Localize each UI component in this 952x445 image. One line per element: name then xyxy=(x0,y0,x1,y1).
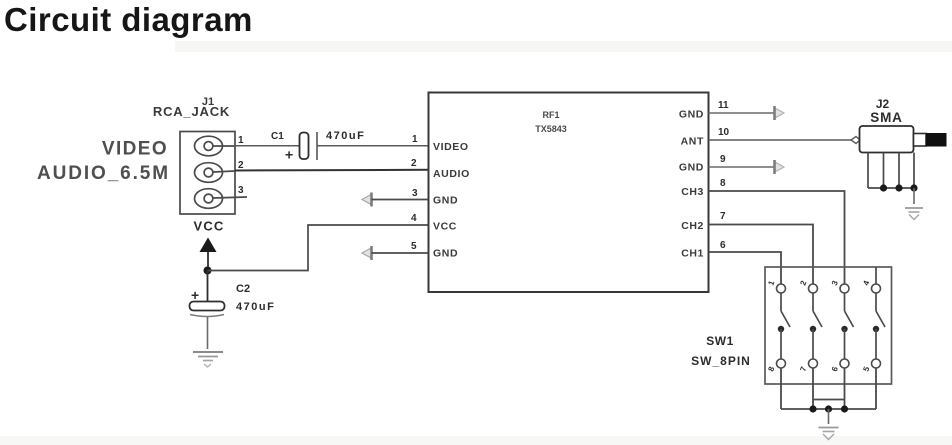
svg-text:1: 1 xyxy=(238,135,244,146)
wire SW1 ground rail xyxy=(781,408,876,410)
wire SW1 pin8 to ground rail xyxy=(780,368,782,409)
switch SW1 designator xyxy=(706,334,734,348)
svg-text:470uF: 470uF xyxy=(326,130,365,142)
connector J1 pin 1 number xyxy=(238,135,244,146)
connector J2 value SMA xyxy=(870,110,902,125)
capacitor C2 negative plate xyxy=(190,315,224,317)
svg-text:8: 8 xyxy=(766,365,776,373)
VCC label at J1 xyxy=(193,219,224,234)
wire AUDIO from J1 pin2 to U1 pin2 xyxy=(235,169,429,172)
IC U1 pin label CH1 xyxy=(681,248,704,260)
svg-text:+: + xyxy=(285,147,293,163)
IC U1 designator RF1 xyxy=(542,110,559,120)
connector J2 body xyxy=(860,126,914,153)
wire CH2 from U1 pin7 to SW1 xyxy=(709,225,814,285)
svg-text:RF1: RF1 xyxy=(542,110,559,120)
IC U1 pin label VIDEO xyxy=(433,141,469,153)
svg-text:4: 4 xyxy=(411,213,417,224)
wire C2 to ground xyxy=(207,317,209,349)
junction SW1 rail dot 1 xyxy=(809,405,816,412)
junction J2 rail dot 2 xyxy=(895,184,902,191)
svg-text:VIDEO: VIDEO xyxy=(433,141,469,153)
ground flag at U1 pin 9 xyxy=(775,160,785,174)
wire J2 ground rail xyxy=(868,187,914,189)
svg-text:1: 1 xyxy=(412,134,418,145)
connector J2 leg 3 xyxy=(898,153,900,189)
svg-text:GND: GND xyxy=(679,109,704,121)
U1 pin 6 number xyxy=(720,240,726,251)
U1 pin 5 number xyxy=(411,241,417,252)
connector J2 leg 4 xyxy=(913,153,915,189)
svg-text:1: 1 xyxy=(766,279,776,287)
capacitor C2 value 470uF xyxy=(236,301,275,313)
capacitor C1 plus sign xyxy=(285,147,293,163)
connector J2 input point xyxy=(851,137,860,144)
connector J2 leg 1 xyxy=(867,153,869,189)
svg-text:2: 2 xyxy=(411,158,417,169)
svg-text:VCC: VCC xyxy=(433,221,457,233)
switch SW1 section 2 xyxy=(809,284,823,368)
connector J1 value RCA_JACK xyxy=(153,104,230,119)
wire CH1 from U1 pin6 to SW1 xyxy=(709,252,782,285)
IC U1 pin label GND pin11 xyxy=(679,109,704,121)
svg-text:7: 7 xyxy=(720,211,726,222)
switch SW1 pin 2 number xyxy=(798,279,808,287)
svg-text:ANT: ANT xyxy=(681,136,704,148)
capacitor C2 plus sign xyxy=(191,287,199,303)
switch SW1 body xyxy=(765,267,892,384)
wire U1 pin9 to ground flag xyxy=(709,166,775,168)
svg-text:AUDIO_6.5M: AUDIO_6.5M xyxy=(37,163,170,184)
svg-text:SMA: SMA xyxy=(870,110,902,125)
capacitor C1 value 470uF xyxy=(326,130,365,142)
wire U1 pin11 to ground flag xyxy=(709,112,775,114)
switch SW1 pin 5 number xyxy=(861,365,871,373)
svg-text:11: 11 xyxy=(718,100,729,111)
U1 pin 11 number xyxy=(718,100,729,111)
junction J2 rail dot 1 xyxy=(880,184,887,191)
connector J1 designator xyxy=(202,96,214,108)
connector J2 black tip xyxy=(926,133,947,147)
junction SW1 rail dot 3 xyxy=(841,405,848,412)
ground flag at U1 pin 3 xyxy=(362,193,372,207)
wire GND to U1 pin3 xyxy=(372,199,429,201)
IC U1 body xyxy=(429,93,709,293)
switch SW1 pin 1 number xyxy=(766,279,776,287)
wire J2 rail to ground xyxy=(913,188,915,204)
svg-text:4: 4 xyxy=(861,279,871,287)
svg-text:GND: GND xyxy=(679,162,704,174)
svg-text:2: 2 xyxy=(238,160,244,171)
svg-text:SW1: SW1 xyxy=(706,334,734,348)
capacitor C2 positive plate xyxy=(190,302,225,311)
wire SW1 pin7 to ground rail xyxy=(812,368,814,409)
VCC power arrow xyxy=(200,238,217,253)
U1 pin 7 number xyxy=(720,211,726,222)
svg-text:10: 10 xyxy=(718,127,730,138)
scan artifact band bottom xyxy=(0,436,952,445)
connector J1 jack 2 xyxy=(195,163,236,183)
switch SW1 section 4 xyxy=(872,267,886,368)
U1 pin 3 number xyxy=(412,188,418,199)
svg-text:C2: C2 xyxy=(236,283,250,295)
node VIDEO label xyxy=(102,139,168,160)
ground symbol below SW1 xyxy=(819,428,839,440)
wire VCC arrow to junction xyxy=(207,252,209,271)
svg-text:GND: GND xyxy=(433,195,458,207)
switch SW1 section 3 xyxy=(840,284,854,368)
U1 pin 8 number xyxy=(720,178,726,189)
connector J1 pin 3 number xyxy=(238,185,244,196)
U1 pin 2 number xyxy=(411,158,417,169)
U1 pin 10 number xyxy=(718,127,730,138)
ground flag at U1 pin 11 xyxy=(775,106,785,120)
svg-text:RCA_JACK: RCA_JACK xyxy=(153,104,230,119)
U1 pin 1 number xyxy=(412,134,418,145)
IC U1 pin label GND pin5 xyxy=(433,248,458,260)
svg-text:3: 3 xyxy=(830,279,840,287)
switch SW1 pin 6 number xyxy=(830,365,840,373)
svg-text:6: 6 xyxy=(830,365,840,373)
svg-text:7: 7 xyxy=(798,365,808,373)
IC U1 pin label AUDIO xyxy=(433,168,470,180)
svg-text:8: 8 xyxy=(720,178,726,189)
IC U1 pin label GND pin9 xyxy=(679,162,704,174)
svg-text:C1: C1 xyxy=(271,131,284,142)
wire SW1 pin5 to ground rail xyxy=(875,368,877,409)
svg-text:AUDIO: AUDIO xyxy=(433,168,470,180)
ground symbol below C2 xyxy=(193,352,223,367)
connector J1 jack 3 xyxy=(195,189,248,209)
switch SW1 pin 7 number xyxy=(798,365,808,373)
wire SW1 pin6 to ground rail xyxy=(844,368,846,409)
connector J2 leg 2 xyxy=(883,153,885,189)
svg-text:470uF: 470uF xyxy=(236,301,275,313)
node AUDIO_6.5M label xyxy=(37,163,170,184)
scan artifact band under title xyxy=(175,41,952,52)
IC U1 pin label ANT xyxy=(681,136,704,148)
junction SW1 rail dot 2 xyxy=(825,405,832,412)
connector J2 stub xyxy=(914,134,927,147)
svg-text:Circuit diagram: Circuit diagram xyxy=(4,1,253,38)
svg-text:3: 3 xyxy=(238,185,244,196)
junction VCC node xyxy=(204,267,212,275)
svg-text:CH3: CH3 xyxy=(681,186,704,198)
wire VCC node to U1 pin4 xyxy=(208,225,429,271)
svg-text:6: 6 xyxy=(720,240,726,251)
svg-text:5: 5 xyxy=(411,241,417,252)
switch SW1 section 1 xyxy=(777,284,791,368)
switch SW1 pin 8 number xyxy=(766,365,776,373)
wire SW1 inner ground link xyxy=(813,399,845,401)
IC U1 pin label GND pin3 xyxy=(433,195,458,207)
U1 pin 9 number xyxy=(720,154,726,165)
title xyxy=(4,1,253,38)
wire SW1 rail to ground xyxy=(828,409,830,424)
junction J2 rail dot 3 xyxy=(910,184,917,191)
wire ANT from U1 pin10 to J2 xyxy=(709,139,854,141)
wire VIDEO from J1 pin1 to C1 xyxy=(235,145,300,147)
svg-text:GND: GND xyxy=(433,248,458,260)
svg-text:J2: J2 xyxy=(876,97,890,111)
wire CH3 from U1 pin8 to SW1 xyxy=(709,191,845,285)
svg-text:2: 2 xyxy=(798,279,808,287)
capacitor C1 positive plate xyxy=(300,133,309,160)
capacitor C2 wire from VCC node xyxy=(207,271,209,302)
connector J1 pin 2 number xyxy=(238,160,244,171)
svg-text:VCC: VCC xyxy=(193,219,224,234)
svg-text:TX5843: TX5843 xyxy=(535,124,567,134)
U1 pin 4 number xyxy=(411,213,417,224)
connector J2 designator xyxy=(876,97,890,111)
svg-text:SW_8PIN: SW_8PIN xyxy=(691,354,751,368)
svg-text:5: 5 xyxy=(861,365,871,373)
IC U1 pin label CH3 xyxy=(681,186,704,198)
wire GND to U1 pin5 xyxy=(372,252,429,254)
ground flag at U1 pin 5 xyxy=(362,246,372,260)
connector J1 body xyxy=(180,132,235,215)
svg-text:CH2: CH2 xyxy=(681,220,704,232)
capacitor C2 designator xyxy=(236,283,250,295)
capacitor C1 negative plate xyxy=(316,132,318,160)
IC U1 pin label VCC xyxy=(433,221,457,233)
svg-text:9: 9 xyxy=(720,154,726,165)
switch SW1 value SW_8PIN xyxy=(691,354,751,368)
svg-text:3: 3 xyxy=(412,188,418,199)
wire VIDEO from C1 to U1 pin1 xyxy=(317,145,429,147)
capacitor C1 designator xyxy=(271,131,284,142)
connector J1 jack 1 xyxy=(195,136,236,156)
switch SW1 pin 4 number xyxy=(861,279,871,287)
IC U1 part number TX5843 xyxy=(535,124,567,134)
ground symbol below J2 xyxy=(905,208,923,220)
switch SW1 pin 3 number xyxy=(830,279,840,287)
svg-text:VIDEO: VIDEO xyxy=(102,139,168,160)
IC U1 pin label CH2 xyxy=(681,220,704,232)
svg-text:CH1: CH1 xyxy=(681,248,704,260)
